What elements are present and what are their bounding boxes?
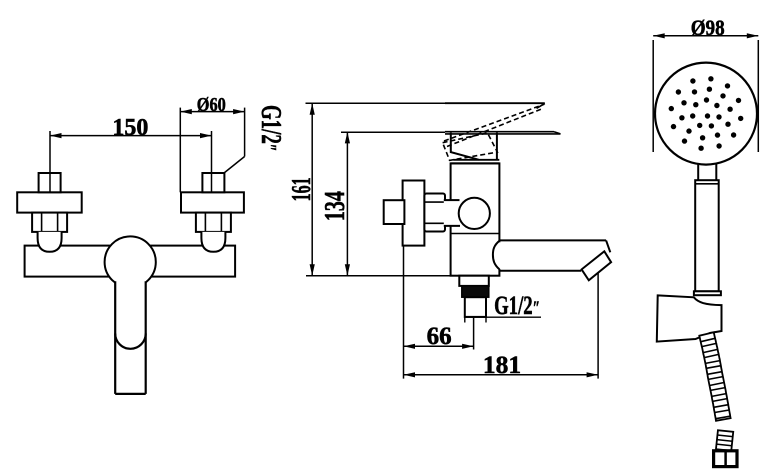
svg-text:161: 161 [286, 177, 316, 201]
svg-text:66: 66 [427, 323, 452, 350]
svg-text:Ø60: Ø60 [197, 95, 226, 116]
svg-text:181: 181 [483, 350, 521, 379]
svg-text:Ø98: Ø98 [691, 15, 725, 40]
svg-text:134: 134 [320, 191, 351, 221]
svg-text:150: 150 [112, 115, 148, 141]
